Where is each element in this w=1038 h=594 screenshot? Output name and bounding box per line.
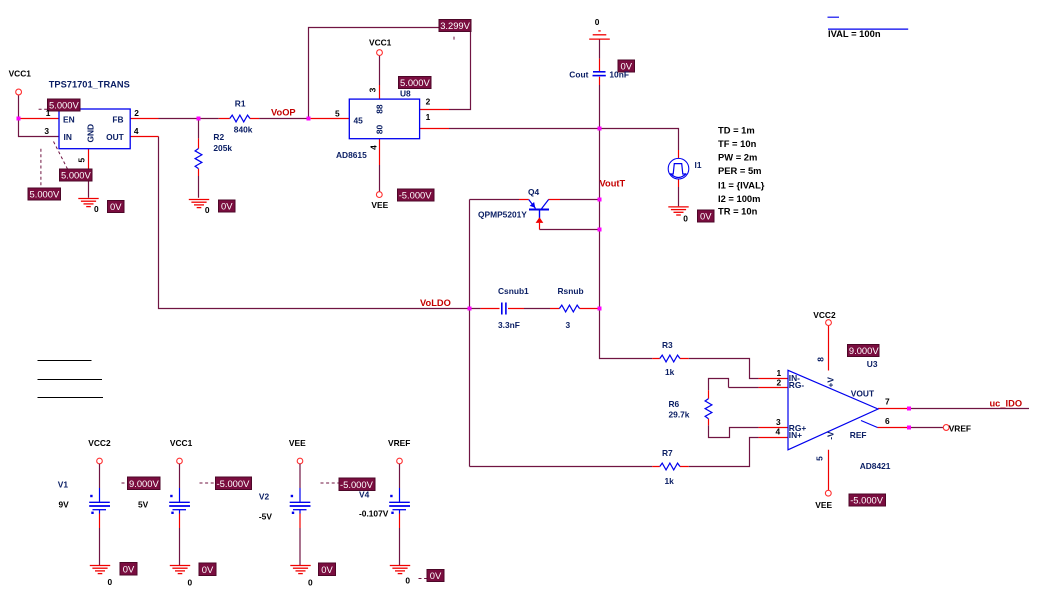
svg-text:9.000V: 9.000V xyxy=(129,478,159,489)
svg-text:6: 6 xyxy=(885,416,890,426)
svg-text:5.000V: 5.000V xyxy=(61,170,91,181)
svg-text:0V: 0V xyxy=(430,570,442,581)
svg-text:IN+: IN+ xyxy=(789,430,802,440)
svg-text:5.000V: 5.000V xyxy=(49,100,79,111)
svg-text:1: 1 xyxy=(426,112,431,122)
svg-text:VEE: VEE xyxy=(371,200,388,210)
svg-text:VEE: VEE xyxy=(289,438,306,448)
svg-text:FB: FB xyxy=(112,114,123,124)
svg-text:9V: 9V xyxy=(59,500,70,510)
svg-text:9.000V: 9.000V xyxy=(849,345,879,356)
svg-text:5V: 5V xyxy=(138,500,149,510)
svg-text:I2 = 100m: I2 = 100m xyxy=(718,193,760,204)
svg-text:4: 4 xyxy=(776,426,781,436)
svg-text:0: 0 xyxy=(683,213,688,223)
svg-text:29.7k: 29.7k xyxy=(669,410,690,420)
svg-text:0V: 0V xyxy=(221,201,233,212)
svg-text:TF = 10n: TF = 10n xyxy=(718,138,757,149)
svg-text:3: 3 xyxy=(44,126,49,136)
svg-text:PW = 2m: PW = 2m xyxy=(718,152,757,163)
svg-text:R7: R7 xyxy=(662,448,673,458)
svg-text:VOUT: VOUT xyxy=(851,388,875,398)
svg-text:3: 3 xyxy=(566,320,571,330)
svg-text:V4: V4 xyxy=(359,490,370,500)
svg-text:IVAL = 100n: IVAL = 100n xyxy=(828,28,881,39)
svg-text:0: 0 xyxy=(108,577,113,587)
svg-text:R2: R2 xyxy=(213,132,224,142)
svg-text:1: 1 xyxy=(46,108,51,118)
svg-text:R6: R6 xyxy=(669,399,680,409)
svg-text:3.3nF: 3.3nF xyxy=(498,320,520,330)
svg-text:+V: +V xyxy=(825,377,835,388)
svg-text:0: 0 xyxy=(94,204,99,214)
svg-text:0V: 0V xyxy=(700,211,712,222)
svg-text:10nF: 10nF xyxy=(609,69,629,79)
svg-text:VCC1: VCC1 xyxy=(369,37,392,47)
svg-text:VoLDO: VoLDO xyxy=(420,298,451,308)
svg-text:205k: 205k xyxy=(213,143,232,153)
svg-text:5: 5 xyxy=(335,108,340,118)
svg-text:OUT: OUT xyxy=(106,132,125,142)
svg-text:80: 80 xyxy=(375,125,385,135)
svg-text:TR = 10n: TR = 10n xyxy=(718,206,758,217)
svg-text:-5.000V: -5.000V xyxy=(399,190,433,201)
svg-text:2: 2 xyxy=(134,108,139,118)
svg-text:V1: V1 xyxy=(58,480,69,490)
svg-text:PER = 5m: PER = 5m xyxy=(718,165,762,176)
svg-text:GND: GND xyxy=(85,124,95,143)
svg-text:45: 45 xyxy=(354,116,364,126)
svg-text:RG-: RG- xyxy=(789,380,805,390)
svg-text:Q4: Q4 xyxy=(528,187,540,197)
svg-text:U3: U3 xyxy=(867,359,878,369)
svg-text:5: 5 xyxy=(815,456,825,461)
svg-text:AD8615: AD8615 xyxy=(336,150,367,160)
svg-text:2: 2 xyxy=(426,97,431,107)
svg-text:5.000V: 5.000V xyxy=(400,77,430,88)
svg-text:QPMP5201Y: QPMP5201Y xyxy=(478,210,527,220)
svg-text:VCC2: VCC2 xyxy=(88,438,111,448)
svg-text:-5.000V: -5.000V xyxy=(850,495,884,506)
svg-text:uc_IDO: uc_IDO xyxy=(990,399,1023,409)
svg-text:-5V: -5V xyxy=(259,512,272,522)
svg-text:88: 88 xyxy=(375,104,385,114)
svg-text:REF: REF xyxy=(850,430,867,440)
svg-text:VCC1: VCC1 xyxy=(9,69,32,79)
svg-text:IN: IN xyxy=(64,132,72,142)
svg-text:7: 7 xyxy=(885,397,890,407)
svg-text:V2: V2 xyxy=(259,492,270,502)
svg-text:Csnub1: Csnub1 xyxy=(498,286,529,296)
svg-text:VREF: VREF xyxy=(388,438,410,448)
svg-text:-0.107V: -0.107V xyxy=(359,509,389,519)
svg-text:8: 8 xyxy=(816,357,826,362)
svg-text:0V: 0V xyxy=(202,564,214,575)
svg-text:TD = 1m: TD = 1m xyxy=(718,125,755,136)
svg-text:VREF: VREF xyxy=(949,424,971,434)
svg-text:-5.000V: -5.000V xyxy=(217,478,251,489)
svg-text:4: 4 xyxy=(134,126,139,136)
svg-text:VoutT: VoutT xyxy=(600,179,626,189)
svg-text:5.000V: 5.000V xyxy=(30,189,60,200)
svg-text:0: 0 xyxy=(405,575,410,585)
svg-text:R1: R1 xyxy=(235,98,246,108)
svg-text:VEE: VEE xyxy=(815,500,832,510)
svg-text:EN: EN xyxy=(63,114,75,124)
svg-text:0: 0 xyxy=(205,205,210,215)
svg-text:VoOP: VoOP xyxy=(271,107,296,117)
svg-text:U8: U8 xyxy=(400,89,411,99)
svg-text:I1 = {IVAL}: I1 = {IVAL} xyxy=(718,179,765,190)
svg-text:0: 0 xyxy=(188,577,193,587)
svg-text:Cout: Cout xyxy=(569,69,588,79)
svg-text:0V: 0V xyxy=(110,201,122,212)
svg-text:VCC1: VCC1 xyxy=(170,438,193,448)
svg-text:0V: 0V xyxy=(123,563,135,574)
svg-text:2: 2 xyxy=(777,377,782,387)
svg-text:0: 0 xyxy=(595,17,600,27)
svg-text:3: 3 xyxy=(368,87,378,92)
svg-text:0: 0 xyxy=(308,577,313,587)
svg-text:-5.000V: -5.000V xyxy=(340,479,374,490)
svg-text:4: 4 xyxy=(369,145,379,150)
svg-text:1k: 1k xyxy=(665,367,675,377)
svg-text:Rsnub: Rsnub xyxy=(558,286,584,296)
svg-text:VCC2: VCC2 xyxy=(813,310,836,320)
svg-text:840k: 840k xyxy=(234,125,253,135)
svg-text:-V: -V xyxy=(825,431,835,440)
svg-text:TPS71701_TRANS: TPS71701_TRANS xyxy=(49,80,130,90)
svg-text:1k: 1k xyxy=(665,476,675,486)
svg-text:0V: 0V xyxy=(321,564,333,575)
svg-text:I1: I1 xyxy=(695,160,702,170)
svg-text:3.299V: 3.299V xyxy=(440,20,470,31)
svg-text:5: 5 xyxy=(77,158,87,163)
svg-text:R3: R3 xyxy=(662,340,673,350)
svg-text:AD8421: AD8421 xyxy=(860,461,891,471)
